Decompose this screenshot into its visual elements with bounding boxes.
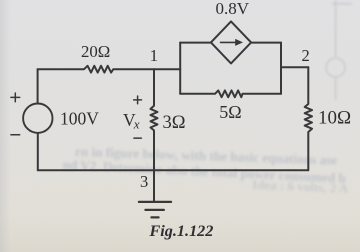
svg-text:3: 3: [140, 172, 148, 191]
svg-text:3Ω: 3Ω: [163, 113, 186, 133]
svg-text:5Ω: 5Ω: [219, 102, 241, 122]
svg-text:Fig.1.122: Fig.1.122: [149, 222, 214, 240]
svg-text:1: 1: [150, 46, 159, 65]
svg-text:10Ω: 10Ω: [318, 108, 351, 129]
svg-text:x: x: [133, 117, 140, 132]
svg-text:100V: 100V: [60, 108, 99, 128]
svg-text:2: 2: [302, 46, 310, 65]
svg-text:20Ω: 20Ω: [81, 42, 110, 61]
svg-text:0.8V: 0.8V: [216, 0, 250, 18]
